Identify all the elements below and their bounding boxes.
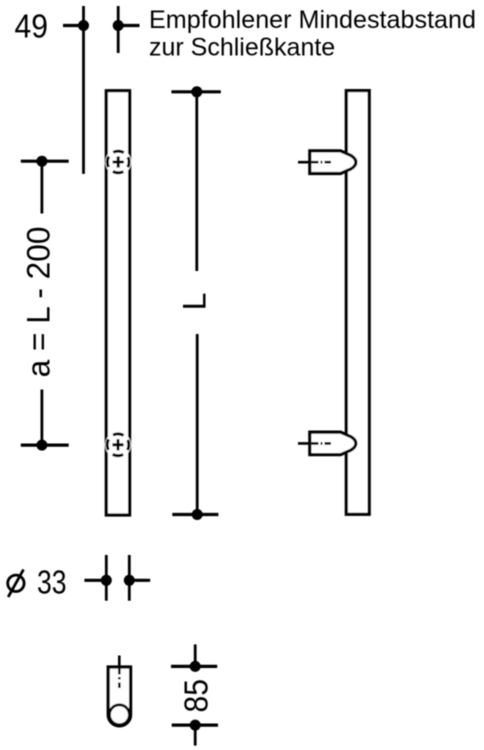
dia33 right dot <box>124 575 135 586</box>
dia33 left dim line <box>84 579 106 582</box>
dim a top dot <box>36 156 47 167</box>
post side outline <box>108 667 130 726</box>
dim L bottom dot <box>192 509 203 520</box>
top post centerline <box>298 161 331 164</box>
dim 85 bottom tick <box>172 723 218 726</box>
dim 85 top tick <box>171 665 217 668</box>
post end circle <box>109 705 129 725</box>
mounting point top knockout <box>105 149 131 175</box>
dim 85 bottom extension <box>194 725 197 746</box>
dim L top tick <box>171 90 220 93</box>
dim a top tick <box>21 160 69 163</box>
dim a lower line segment <box>41 390 44 446</box>
mounting point bottom knockout <box>105 432 131 458</box>
handle bar front view <box>106 91 129 515</box>
top mounting post <box>310 151 356 174</box>
closing edge reference line <box>82 6 85 174</box>
dim L top dot <box>191 86 202 97</box>
dim49 left dot <box>78 20 89 31</box>
diameter symbol slash <box>8 570 23 598</box>
mounting point bottom plus horizontal <box>112 443 123 446</box>
svg-text:49: 49 <box>15 8 49 45</box>
dim a upper line segment <box>41 161 44 213</box>
dim 85 bottom dot <box>190 720 201 731</box>
handle centerline extension <box>117 6 120 53</box>
svg-text:33: 33 <box>37 564 67 601</box>
dia33 left extension line <box>105 555 108 601</box>
post centerline vertical <box>118 656 121 689</box>
mounting point top dashed circle <box>107 151 129 173</box>
diameter symbol circle <box>8 575 24 591</box>
dim a bottom tick <box>21 444 69 447</box>
dim a bottom dot <box>36 440 47 451</box>
mounting point top plus vertical <box>117 156 120 167</box>
svg-text:85: 85 <box>178 679 215 713</box>
dim 85 top extension <box>194 644 197 666</box>
svg-text:Empfohlener Mindestabstand: Empfohlener Mindestabstand <box>149 6 476 34</box>
dim L lower line segment <box>196 334 199 515</box>
mounting point bottom plus vertical <box>117 439 120 450</box>
svg-text:L: L <box>177 293 213 311</box>
svg-text:zur Schließkante: zur Schließkante <box>149 34 335 62</box>
handle bar side view <box>346 91 369 515</box>
dim 85 top dot <box>190 661 201 672</box>
bottom post centerline <box>298 442 331 445</box>
dim49 right dot <box>113 20 124 31</box>
dim49 left extension line <box>63 24 84 27</box>
bottom mounting post <box>310 432 356 455</box>
dia33 right extension line <box>128 555 131 601</box>
dim L upper line segment <box>195 92 198 271</box>
mounting point bottom dashed circle <box>107 434 129 456</box>
svg-text:a = L - 200: a = L - 200 <box>21 227 57 378</box>
mounting point top plus horizontal <box>113 161 124 164</box>
dim49 right extension line <box>118 24 139 27</box>
dim L bottom tick <box>172 513 218 516</box>
dia33 right dim line <box>129 579 150 582</box>
dia33 left dot <box>101 575 112 586</box>
